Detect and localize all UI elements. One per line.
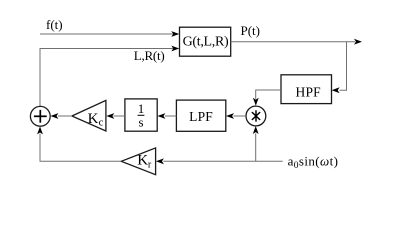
- svg-text:G(t,L,R): G(t,L,R): [183, 34, 229, 49]
- wire Kr to summer: [37, 126, 121, 161]
- wire L,R(t) from summer to G: [40, 46, 179, 107]
- multiplier junction: [246, 106, 266, 126]
- svg-text:L,R(t): L,R(t): [134, 48, 165, 63]
- svg-text:K: K: [137, 152, 148, 168]
- block LPF: [176, 100, 225, 131]
- label f(t): [46, 17, 63, 32]
- wire P(t) output: [231, 39, 362, 45]
- block integrator 1/s: [125, 99, 157, 131]
- label L,R(t): [134, 48, 165, 63]
- wire multiplier to LPF: [226, 113, 246, 119]
- svg-text:LPF: LPF: [189, 109, 213, 124]
- wire bottom branch to multiplier: [253, 126, 259, 161]
- svg-text:c: c: [99, 118, 104, 129]
- wire branch from P(t) down to HPF: [332, 42, 347, 93]
- gain Kc: [72, 100, 106, 131]
- summer junction: [30, 106, 50, 126]
- svg-text:f(t): f(t): [46, 17, 63, 32]
- svg-text:s: s: [138, 114, 143, 129]
- gain Kr: [121, 148, 155, 175]
- svg-text:HPF: HPF: [296, 85, 322, 100]
- svg-text:K: K: [88, 111, 99, 127]
- wire integrator to Kc: [106, 113, 125, 119]
- svg-text:P(t): P(t): [241, 23, 261, 38]
- label P(t): [241, 23, 261, 38]
- wire Kc to summer: [50, 113, 72, 119]
- block HPF: [281, 75, 332, 104]
- wire f(t) input: [40, 31, 179, 37]
- block G(t,L,R): [180, 27, 231, 56]
- wire LPF to integrator: [157, 113, 176, 119]
- label a0 sin(wt): [288, 153, 339, 171]
- wire a0 source to Kr: [156, 158, 283, 164]
- wire HPF to multiplier: [253, 90, 281, 106]
